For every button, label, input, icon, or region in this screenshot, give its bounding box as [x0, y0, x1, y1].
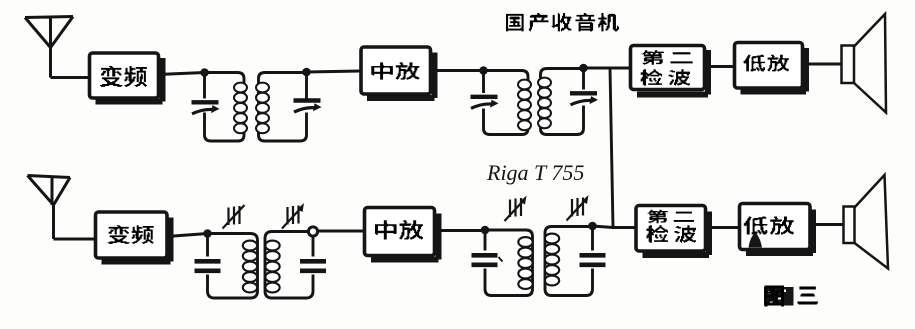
- speaker (top): driver rectangle: [842, 46, 855, 84]
- tank circuit loop 5 (bottom): [208, 234, 258, 299]
- box 中放 (bottom): [365, 208, 439, 260]
- box 变频 (bottom): [96, 212, 171, 262]
- tank circuit loop 7 (bottom): [485, 230, 533, 296]
- wire to 中放: [307, 71, 361, 72]
- fixed capacitor C6: [300, 261, 326, 271]
- svg-text:Riga T 755: Riga T 755: [486, 160, 584, 185]
- wire antenna A1 to box: [51, 76, 91, 79]
- node (junction dot, top tank 3): [479, 66, 488, 75]
- tank circuit loop 3 (top): [484, 71, 529, 135]
- tank circuit loop 4 (top): [541, 69, 584, 135]
- adjustable slug symbol above L7 (with arrow): [505, 196, 527, 222]
- speaker (bottom): horn: [855, 175, 889, 269]
- adjustable slug symbol above L5: [223, 205, 245, 229]
- node (junction dot, bottom tank 7): [481, 226, 490, 235]
- node (junction dot, top tank 4 output): [579, 64, 588, 73]
- wire 第二检波 to 低放 (top): [705, 65, 735, 68]
- wire 第二检波 to 低放 (bottom): [706, 226, 740, 229]
- antenna A1 (top): [25, 17, 73, 78]
- antenna A2 (bottom): [28, 176, 71, 240]
- wire tank8 to 第二检波 (bottom): [593, 226, 637, 228]
- tank circuit loop 8 (bottom): [545, 227, 593, 296]
- variable capacitor (tank 1): [192, 102, 220, 114]
- coil L1 (top IF transformer primary): [234, 83, 247, 134]
- wire 变频 to node: [158, 73, 205, 75]
- coil L8 (bottom 2nd IF transformer secondary): [545, 234, 559, 286]
- coil L3 (top 2nd IF transformer primary): [518, 80, 531, 131]
- coil L6 (bottom IF transformer secondary): [265, 241, 279, 293]
- wire 变频 to node (bottom): [167, 234, 208, 237]
- box 低放 (top): [735, 43, 807, 92]
- coil L4 (top 2nd IF transformer secondary): [538, 78, 551, 129]
- node (junction dot, top tank 1): [200, 68, 209, 77]
- coil L7 (bottom 2nd IF transformer primary): [518, 237, 532, 289]
- wire tank4 to 第二检波 (top): [584, 67, 632, 70]
- variable capacitor (tank 3): [471, 97, 499, 109]
- wire antenna A2 to box: [54, 238, 96, 241]
- box 第二检波 (top): [631, 46, 709, 95]
- node (open circle, bottom tank 6 output): [308, 227, 317, 236]
- fixed capacitor C7: [472, 255, 498, 264]
- tank circuit loop 6 (bottom): [265, 232, 313, 299]
- adjustable slug symbol above L8 (with arrow): [567, 195, 589, 221]
- tank circuit loop 1 (top): [205, 73, 245, 142]
- speaker (top): horn: [854, 14, 886, 113]
- speaker (bottom): driver rectangle: [844, 207, 855, 244]
- node (junction dot, bottom tank 8 output): [588, 222, 597, 231]
- node (junction dot, bottom tank 5): [203, 229, 212, 238]
- coil L2 (top IF transformer secondary): [256, 83, 269, 134]
- node (junction dot, top tank 2 output): [302, 68, 311, 77]
- wire node to 中放 (bottom): [318, 230, 365, 233]
- fixed capacitor C5: [195, 261, 221, 271]
- variable capacitor (tank 2): [294, 101, 322, 113]
- box 变频 (top): [90, 53, 163, 102]
- variable capacitor (tank 4): [570, 93, 598, 105]
- label 图三: [764, 286, 818, 307]
- tank circuit loop 2 (top): [259, 73, 307, 142]
- box 第二检波 (bottom): [636, 206, 709, 256]
- wire 低放 to speaker (bottom): [810, 223, 844, 226]
- vertical link wire from top IF output down to bottom detector line: [610, 68, 613, 228]
- box 中放 (top): [361, 47, 435, 98]
- fixed capacitor C8: [580, 255, 606, 264]
- label 国产收音机: [506, 13, 619, 31]
- adjustable slug symbol above L6 (with arrow): [282, 203, 304, 229]
- box 低放 (bottom): [740, 204, 814, 254]
- wire 低放 to speaker (top): [803, 63, 842, 66]
- coil L5 (bottom IF transformer primary): [243, 241, 257, 293]
- wire 中放 to node: [431, 69, 484, 72]
- wire 中放 to node (bottom): [435, 229, 486, 232]
